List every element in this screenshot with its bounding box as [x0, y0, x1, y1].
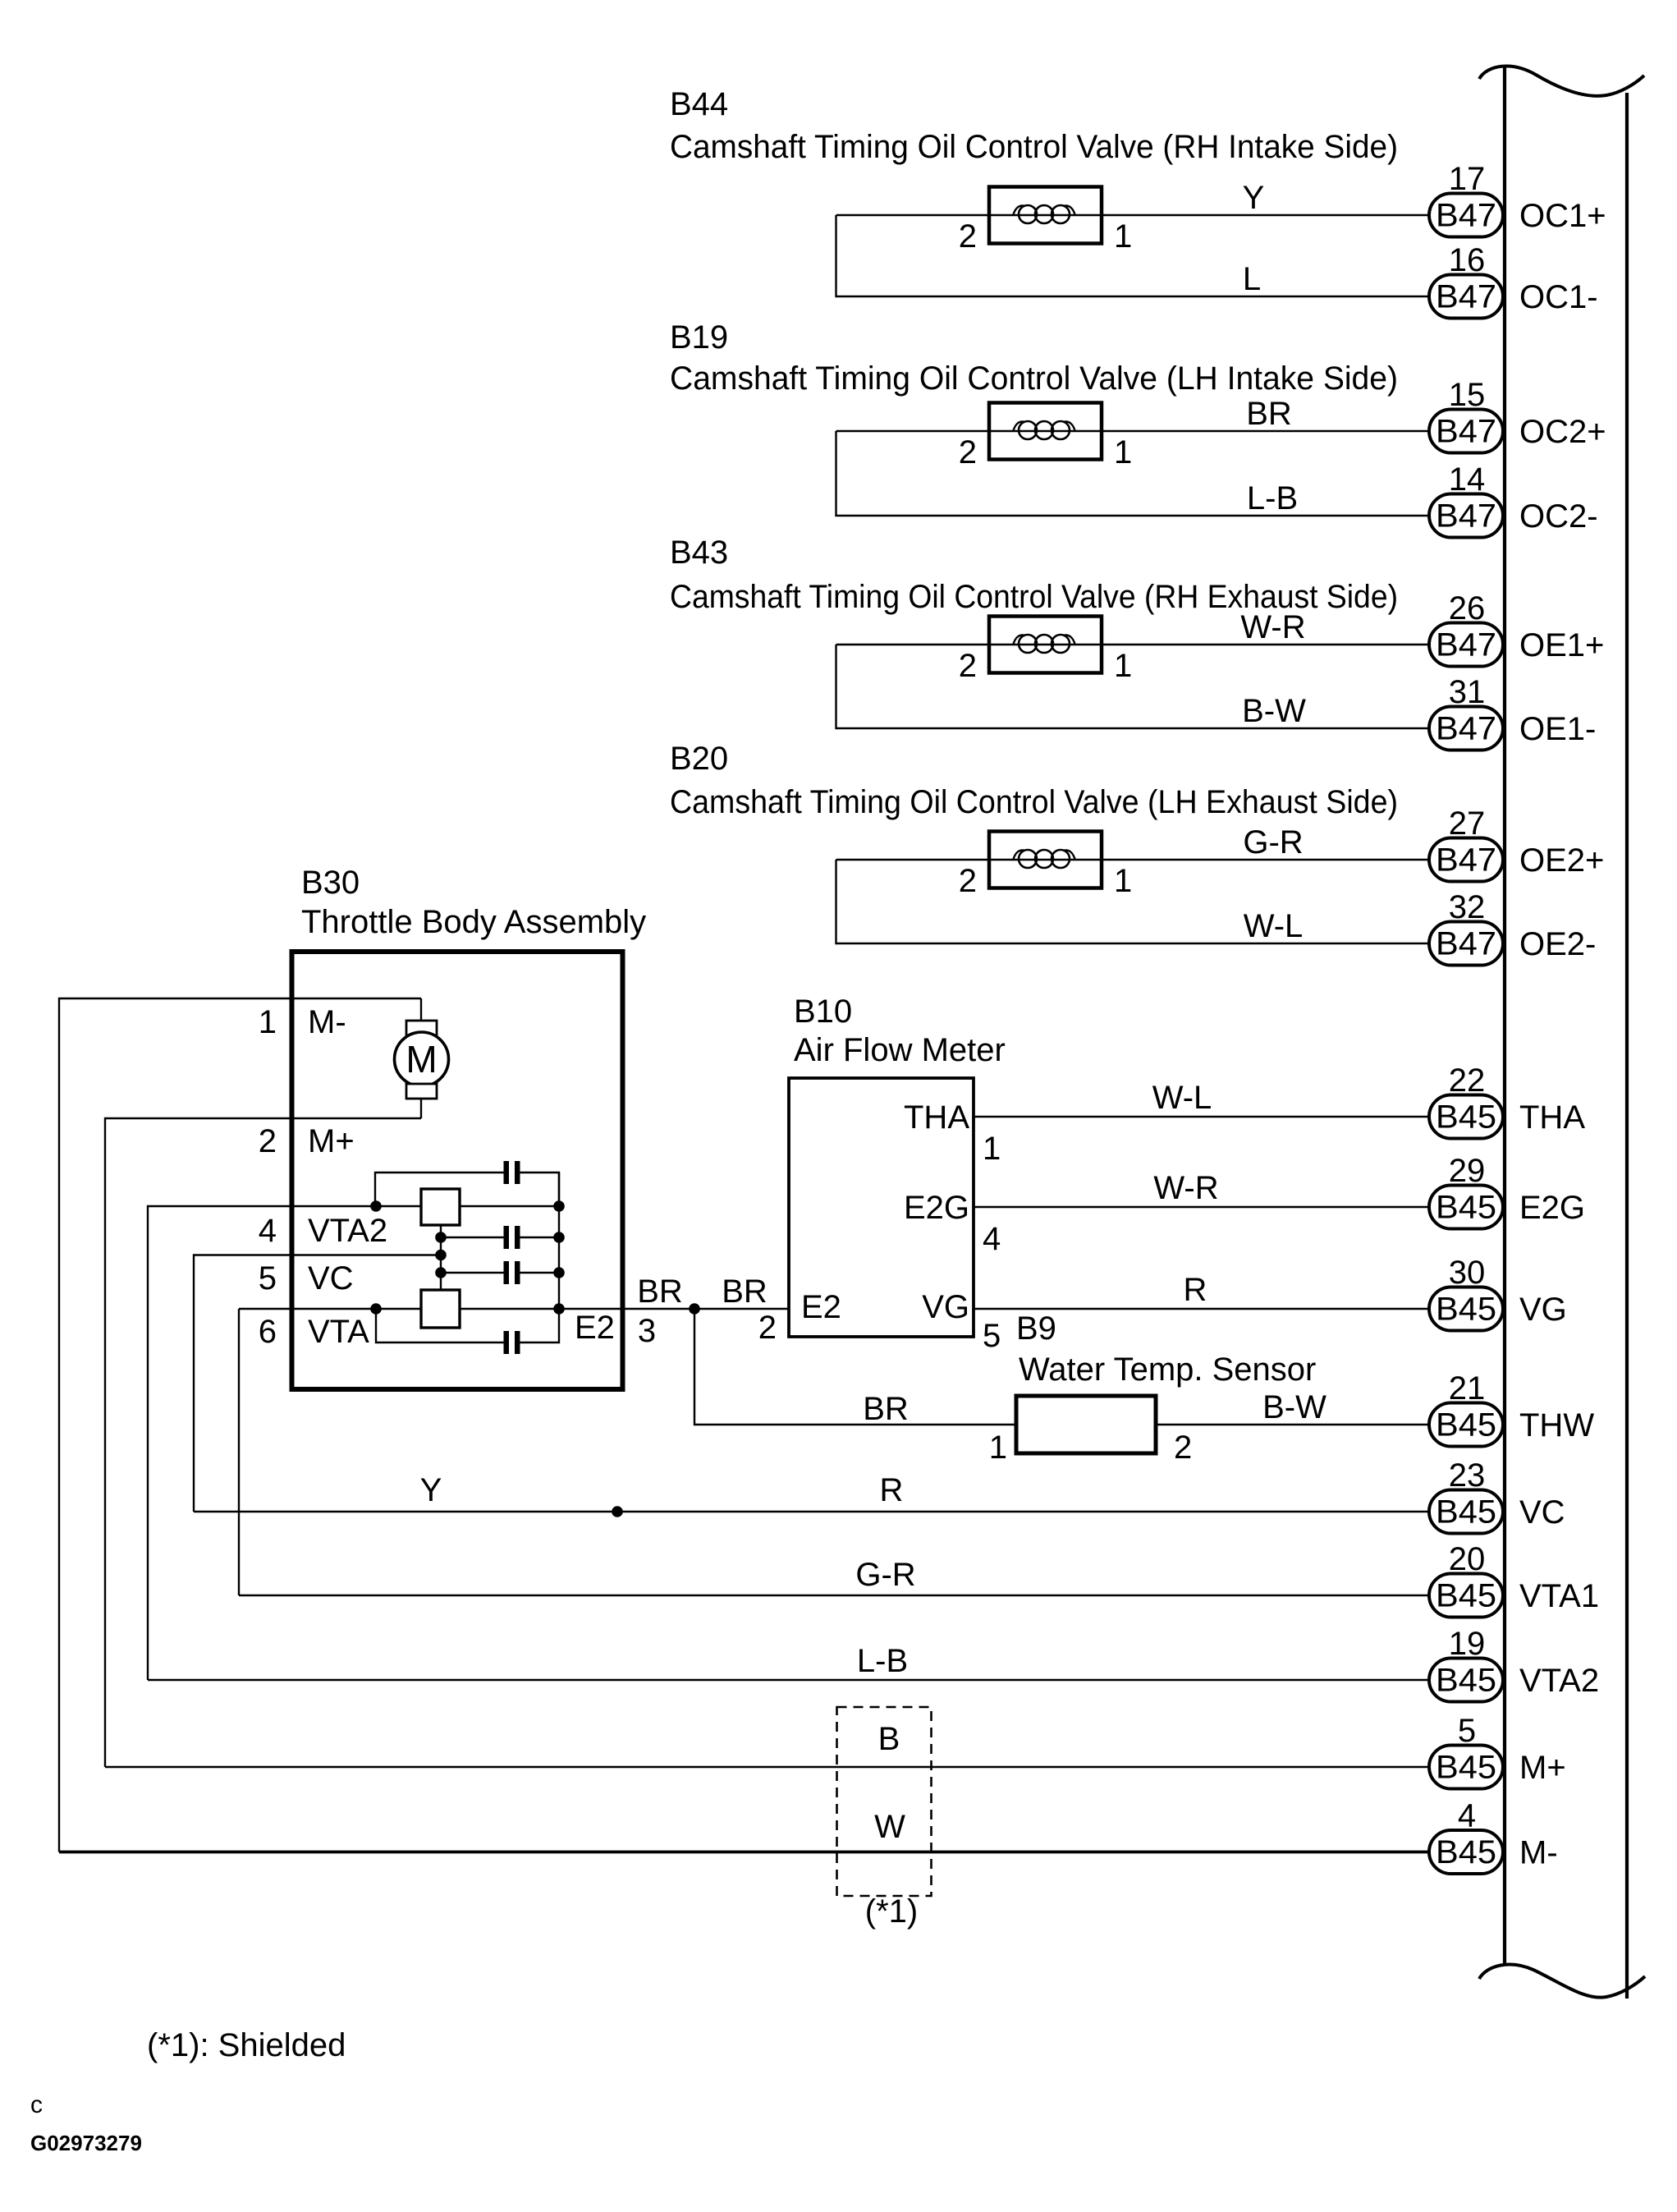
capacitor bottom row: [376, 1309, 504, 1342]
svg-text:30: 30: [1449, 1255, 1486, 1291]
svg-text:B47: B47: [1436, 414, 1496, 450]
ECM bus top break (wavy line): [1479, 66, 1644, 95]
connector B45 pin 22 (THA): [1429, 1095, 1503, 1139]
svg-text:1: 1: [1114, 434, 1132, 470]
wire B44 pin2 loop to ECM (L): [836, 215, 1430, 296]
svg-text:G-R: G-R: [1243, 824, 1303, 860]
svg-text:E2: E2: [801, 1289, 841, 1325]
connector B47 pin 16 (OC1-): [1429, 275, 1503, 319]
svg-text:23: 23: [1449, 1457, 1486, 1494]
svg-text:L-B: L-B: [1247, 480, 1298, 516]
svg-text:Water Temp. Sensor: Water Temp. Sensor: [1019, 1352, 1316, 1388]
junction center column bottom: [435, 1267, 447, 1278]
junction VTA2-right: [553, 1200, 565, 1212]
svg-text:VTA2: VTA2: [1519, 1663, 1599, 1699]
svg-text:B47: B47: [1436, 711, 1496, 747]
wire B9 pin 2 to ECM (B-W): [1156, 1424, 1429, 1425]
svg-text:B43: B43: [670, 535, 728, 571]
svg-text:20: 20: [1449, 1541, 1486, 1577]
svg-text:M-: M-: [1519, 1835, 1558, 1871]
svg-text:Camshaft Timing Oil Control Va: Camshaft Timing Oil Control Valve (LH Ex…: [670, 784, 1398, 820]
svg-text:B47: B47: [1436, 198, 1496, 234]
svg-text:21: 21: [1449, 1370, 1486, 1407]
svg-text:Y: Y: [1243, 180, 1265, 216]
svg-text:R: R: [1184, 1272, 1207, 1308]
svg-text:E2G: E2G: [904, 1190, 969, 1226]
solenoid valve B20 coil box: [989, 832, 1102, 888]
svg-text:M: M: [406, 1038, 437, 1081]
right column vertical: [558, 1173, 560, 1309]
wire center column: [440, 1225, 442, 1290]
air flow meter box B10: [789, 1078, 974, 1337]
svg-text:B9: B9: [1016, 1310, 1056, 1347]
wire BR junction down to water temp sensor: [694, 1309, 1016, 1425]
svg-text:OE1-: OE1-: [1519, 711, 1596, 747]
svg-text:5: 5: [259, 1260, 277, 1296]
connector B45 pin 19 (VTA2): [1429, 1659, 1503, 1702]
wire E2G to ECM (W-R): [974, 1206, 1429, 1208]
wire B20 pin2 loop to ECM (W-L): [836, 860, 1430, 943]
svg-text:BR: BR: [863, 1391, 909, 1427]
svg-text:B-W: B-W: [1242, 693, 1306, 729]
junction VTA-right (E2): [553, 1303, 565, 1315]
svg-text:4: 4: [983, 1221, 1001, 1257]
junction VTA2-left: [370, 1200, 382, 1212]
svg-text:OC1+: OC1+: [1519, 198, 1606, 234]
wire M- to ECM (W): [59, 1851, 1429, 1854]
svg-text:4: 4: [259, 1213, 277, 1249]
solenoid valve B19 coil: [1019, 421, 1037, 439]
svg-text:B47: B47: [1436, 498, 1496, 535]
svg-text:VTA2: VTA2: [308, 1213, 387, 1249]
ECM bus bottom break (wavy line): [1479, 1965, 1645, 1998]
svg-text:L-B: L-B: [857, 1643, 908, 1679]
svg-text:THA: THA: [1519, 1099, 1585, 1136]
connector B47 pin 32 (OE2-): [1429, 922, 1503, 966]
wire B43 pin2 loop to ECM (B-W): [836, 645, 1430, 728]
svg-text:B47: B47: [1436, 842, 1496, 879]
wire VC from throttle pin 5 down left side: [194, 1255, 441, 1512]
svg-text:1: 1: [259, 1004, 277, 1040]
svg-text:VC: VC: [308, 1260, 354, 1296]
svg-text:(*1): Shielded: (*1): Shielded: [147, 2027, 346, 2063]
svg-text:22: 22: [1449, 1062, 1486, 1099]
wire B19 pin1 to ECM (BR): [836, 430, 1430, 432]
throttle body box B30: [292, 952, 623, 1389]
wire B20 pin1 to ECM (G-R): [836, 859, 1430, 860]
wire VTA2 from throttle pin 4 down left side: [148, 1206, 376, 1680]
water temp sensor box B9: [1016, 1396, 1156, 1453]
svg-text:Air Flow Meter: Air Flow Meter: [794, 1032, 1006, 1068]
sensor element square 2 (VTA): [421, 1290, 460, 1328]
motor M brush top: [406, 1021, 437, 1035]
svg-text:2: 2: [259, 1123, 277, 1159]
connector B45 pin 21 (THW): [1429, 1403, 1503, 1447]
svg-text:(*1): (*1): [865, 1893, 918, 1930]
capacitor top row: [375, 1173, 504, 1206]
connector B47 pin 31 (OE1-): [1429, 707, 1503, 750]
wire M+ from throttle pin 2 down left side to ECM M+: [105, 1118, 421, 1767]
connector B45 pin 30 (VG): [1429, 1287, 1503, 1331]
svg-text:Throttle Body Assembly: Throttle Body Assembly: [301, 904, 646, 940]
connector B47 pin 14 (OC2-): [1429, 494, 1503, 538]
svg-text:L: L: [1243, 261, 1261, 297]
svg-text:2: 2: [959, 434, 977, 470]
wire VC to ECM (Y / R): [194, 1511, 1429, 1512]
svg-text:17: 17: [1449, 161, 1486, 197]
svg-text:29: 29: [1449, 1153, 1486, 1189]
svg-text:Camshaft Timing Oil Control Va: Camshaft Timing Oil Control Valve (LH In…: [670, 360, 1398, 397]
svg-text:M+: M+: [1519, 1750, 1566, 1786]
wire motor M+ lead: [420, 1099, 422, 1118]
svg-text:OE1+: OE1+: [1519, 627, 1604, 663]
svg-text:W-L: W-L: [1244, 908, 1304, 944]
solenoid valve B44 coil box: [989, 187, 1102, 244]
wire B44 pin1 to ECM (Y): [836, 214, 1430, 216]
svg-text:VTA: VTA: [308, 1314, 369, 1350]
wire VTA / E2 line from pin 6 through box to AFM E2: [239, 1308, 789, 1310]
svg-text:M+: M+: [308, 1123, 355, 1159]
wire B19 pin2 loop to ECM (L-B): [836, 431, 1430, 516]
solenoid valve B43 coil: [1019, 635, 1037, 653]
svg-text:G-R: G-R: [855, 1557, 915, 1593]
junction VTA-left: [370, 1303, 382, 1315]
svg-text:2: 2: [1174, 1430, 1192, 1466]
svg-text:2: 2: [758, 1310, 777, 1346]
svg-text:M-: M-: [308, 1004, 346, 1040]
svg-text:c: c: [30, 2091, 43, 2118]
svg-text:1: 1: [1114, 648, 1132, 684]
wire VTA from throttle pin 6 down left side: [238, 1309, 240, 1595]
wire VG to ECM (R): [974, 1308, 1429, 1310]
svg-text:THW: THW: [1519, 1407, 1594, 1443]
wire ECM bus right vertical line: [1625, 93, 1629, 1999]
svg-text:Y: Y: [420, 1472, 442, 1508]
svg-text:R: R: [880, 1472, 904, 1508]
svg-text:1: 1: [989, 1430, 1007, 1466]
svg-text:B45: B45: [1436, 1494, 1496, 1531]
svg-text:19: 19: [1449, 1626, 1486, 1662]
svg-text:Camshaft Timing Oil Control Va: Camshaft Timing Oil Control Valve (RH In…: [670, 129, 1398, 165]
junction VC center: [435, 1250, 447, 1261]
connector B47 pin 27 (OE2+): [1429, 838, 1503, 882]
svg-text:31: 31: [1449, 674, 1486, 710]
svg-text:B45: B45: [1436, 1750, 1496, 1786]
connector B45 pin 5 (M+): [1429, 1746, 1503, 1789]
solenoid valve B19 coil box: [989, 403, 1102, 460]
connector B47 pin 15 (OC2+): [1429, 410, 1503, 453]
svg-text:W-R: W-R: [1153, 1170, 1218, 1206]
svg-text:5: 5: [983, 1318, 1001, 1354]
svg-text:B45: B45: [1436, 1578, 1496, 1614]
svg-text:OC2+: OC2+: [1519, 414, 1606, 450]
svg-text:OC2-: OC2-: [1519, 498, 1598, 535]
svg-text:1: 1: [1114, 218, 1132, 255]
svg-text:5: 5: [1458, 1713, 1476, 1749]
svg-text:W-L: W-L: [1152, 1080, 1212, 1116]
svg-text:16: 16: [1449, 242, 1486, 278]
svg-text:E2: E2: [575, 1310, 615, 1346]
svg-text:B-W: B-W: [1262, 1389, 1326, 1425]
svg-text:B20: B20: [670, 741, 728, 777]
node BR junction: [689, 1303, 700, 1315]
svg-text:VTA1: VTA1: [1519, 1578, 1599, 1614]
svg-text:VC: VC: [1519, 1494, 1565, 1531]
svg-text:4: 4: [1458, 1798, 1476, 1834]
svg-text:3: 3: [638, 1313, 656, 1349]
svg-text:THA: THA: [904, 1099, 969, 1136]
svg-text:VG: VG: [1519, 1292, 1567, 1328]
svg-text:6: 6: [259, 1314, 277, 1350]
connector B45 pin 20 (VTA1): [1429, 1574, 1503, 1618]
wire M+ to ECM (B): [105, 1766, 1429, 1768]
svg-text:14: 14: [1449, 461, 1486, 498]
svg-text:B44: B44: [670, 86, 728, 122]
svg-text:W-R: W-R: [1240, 609, 1305, 645]
junction cap row2 right: [553, 1232, 565, 1243]
svg-text:1: 1: [983, 1131, 1001, 1167]
svg-text:BR: BR: [1246, 396, 1292, 432]
svg-text:B47: B47: [1436, 279, 1496, 315]
shielded cable boundary (dashed): [837, 1707, 932, 1896]
wire VTA2 row to sensor element: [376, 1205, 559, 1207]
motor M brush bottom: [406, 1084, 437, 1099]
svg-text:2: 2: [959, 648, 977, 684]
svg-text:B47: B47: [1436, 926, 1496, 962]
solenoid valve B43 coil box: [989, 617, 1102, 673]
svg-text:B10: B10: [794, 994, 852, 1030]
wire B43 pin1 to ECM (W-R): [836, 644, 1430, 645]
wire M- from throttle pin 1 down left side to ECM M-: [59, 998, 421, 1852]
svg-text:2: 2: [959, 863, 977, 899]
svg-text:B47: B47: [1436, 627, 1496, 663]
svg-text:27: 27: [1449, 805, 1486, 842]
junction center column top: [435, 1232, 447, 1243]
svg-text:B45: B45: [1436, 1663, 1496, 1699]
svg-text:BR: BR: [637, 1274, 683, 1310]
capacitor row 2: [441, 1237, 504, 1238]
svg-text:OE2+: OE2+: [1519, 842, 1604, 879]
solenoid valve B20 coil: [1019, 850, 1037, 868]
wire THA to ECM (W-L): [974, 1116, 1429, 1117]
svg-text:OE2-: OE2-: [1519, 926, 1596, 962]
solenoid valve B44 coil: [1019, 205, 1037, 223]
svg-text:B45: B45: [1436, 1190, 1496, 1226]
wire ECM bus left vertical line: [1503, 66, 1506, 1964]
svg-text:32: 32: [1449, 889, 1486, 925]
connector B45 pin 23 (VC): [1429, 1490, 1503, 1534]
svg-text:OC1-: OC1-: [1519, 279, 1598, 315]
connector B47 pin 26 (OE1+): [1429, 623, 1503, 667]
svg-text:G02973279: G02973279: [30, 2131, 142, 2155]
svg-text:1: 1: [1114, 863, 1132, 899]
connector B45 pin 4 (M-): [1429, 1830, 1503, 1874]
wire VTA to ECM (G-R): [239, 1595, 1429, 1596]
wire VTA2 to ECM (L-B): [148, 1679, 1429, 1681]
junction cap row3 right: [553, 1267, 565, 1278]
svg-text:B19: B19: [670, 319, 728, 356]
svg-text:B45: B45: [1436, 1834, 1496, 1870]
svg-text:26: 26: [1449, 590, 1486, 626]
svg-text:B: B: [878, 1721, 900, 1757]
svg-text:VG: VG: [922, 1289, 969, 1325]
wire motor M- lead: [420, 998, 422, 1022]
connector B47 pin 17 (OC1+): [1429, 194, 1503, 237]
svg-text:B30: B30: [301, 865, 360, 901]
capacitor row 3: [441, 1272, 504, 1274]
svg-text:BR: BR: [722, 1274, 767, 1310]
svg-text:B45: B45: [1436, 1407, 1496, 1443]
svg-text:E2G: E2G: [1519, 1190, 1585, 1226]
svg-text:2: 2: [959, 218, 977, 255]
connector B45 pin 29 (E2G): [1429, 1186, 1503, 1229]
svg-text:B45: B45: [1436, 1099, 1496, 1136]
sensor element square 1 (VTA2): [421, 1189, 460, 1225]
node junction on VC wire: [612, 1506, 623, 1517]
svg-text:B45: B45: [1436, 1292, 1496, 1328]
svg-text:15: 15: [1449, 377, 1486, 413]
motor M of throttle body: [395, 1032, 449, 1086]
svg-text:W: W: [874, 1809, 905, 1845]
